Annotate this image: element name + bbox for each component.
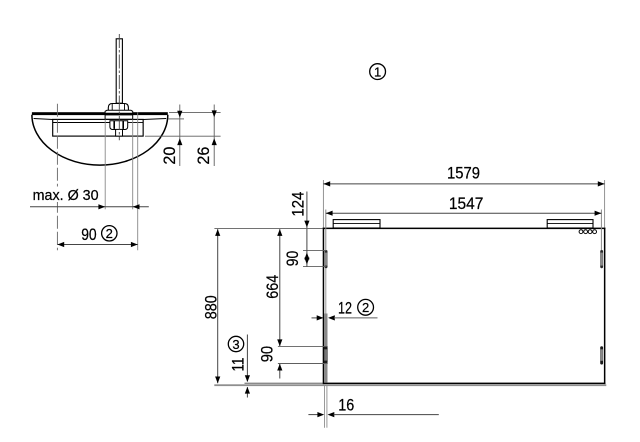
svg-text:1: 1 <box>374 64 381 79</box>
dimension 20 line and arrows <box>177 105 182 167</box>
svg-text:90: 90 <box>283 251 302 267</box>
dimension lower 90 bottom arrow <box>277 364 282 379</box>
dimension 664 line and arrows <box>277 229 282 346</box>
radiator: left edge <box>323 228 325 385</box>
svg-text:90: 90 <box>257 346 276 363</box>
svg-text:20: 20 <box>160 147 179 165</box>
dimension upper 90 line and arrows <box>304 231 309 267</box>
extension line washer right (max dia 30) <box>132 120 134 210</box>
svg-text:11: 11 <box>228 358 247 372</box>
lower 90 extension lines <box>278 346 328 363</box>
clamp bracket figure: lower nut <box>110 121 128 130</box>
extension line right (90 dim) <box>137 113 139 251</box>
left tap block <box>324 346 328 364</box>
dimension 880 line and arrows <box>215 229 220 383</box>
radiator: right edge <box>604 228 606 385</box>
top edge extension to left <box>214 227 322 229</box>
dimension 124 line with arrow <box>304 192 309 231</box>
svg-text:3: 3 <box>232 337 239 352</box>
label 124 <box>289 192 308 217</box>
svg-text:2: 2 <box>106 226 113 241</box>
clamp bracket figure: right inner lip line <box>143 119 166 120</box>
label 26 <box>194 147 213 165</box>
radiator: top edge <box>323 228 606 230</box>
label max dia 30 with mask <box>31 187 100 204</box>
callout circle 1 <box>370 64 386 80</box>
clamp bracket figure: left inner lip line <box>34 119 53 120</box>
svg-text:124: 124 <box>289 192 308 217</box>
dashed centerline extension left (90 dim) <box>56 104 58 251</box>
dimension 1579 extension lines <box>323 180 604 228</box>
label 1547 <box>449 194 484 213</box>
label 12 (2) <box>338 298 374 317</box>
svg-text:880: 880 <box>201 295 220 319</box>
dimension 11 line and arrows <box>245 335 250 398</box>
dimension line max dia 30 <box>30 204 149 209</box>
svg-text:max. Ø 30: max. Ø 30 <box>33 187 99 204</box>
label 90 (2) <box>81 225 117 244</box>
label 11 <box>228 358 247 372</box>
extension line C bracket bottom <box>145 135 221 137</box>
svg-text:90: 90 <box>81 225 97 244</box>
dimension 16 line and arrows <box>308 412 438 417</box>
svg-text:1579: 1579 <box>447 164 480 183</box>
svg-text:2: 2 <box>362 300 369 315</box>
floor line <box>214 384 606 386</box>
upper 90 extension lines <box>303 250 326 266</box>
svg-text:1547: 1547 <box>449 194 484 213</box>
radiator bottom extension line left <box>245 382 324 384</box>
radiator: bottom edge <box>323 383 606 385</box>
left console rail grey bar <box>324 314 327 383</box>
dimension 26 line and arrows <box>212 105 217 167</box>
clamp bracket figure: stud centerline <box>118 34 120 140</box>
clamp bracket figure: upper hex nut <box>108 104 128 111</box>
svg-text:12: 12 <box>338 298 352 317</box>
svg-text:664: 664 <box>263 275 282 299</box>
right tap capsule <box>600 346 603 364</box>
dimension line 90 (2) <box>57 242 137 247</box>
clamp bracket figure: lower washer under plate <box>105 115 133 119</box>
radiator: right top tab <box>547 220 593 228</box>
svg-text:16: 16 <box>338 395 354 414</box>
dimension line 1579 <box>323 181 604 186</box>
clamp bracket figure: stud rod <box>116 39 122 103</box>
label lower 90 <box>257 346 276 363</box>
dimension line 1547 <box>326 211 602 216</box>
right mounting thin line <box>600 210 602 251</box>
dimension 12 (2) line and arrows <box>312 315 378 320</box>
clamp bracket figure: bracket channel body <box>53 119 143 136</box>
clamp bracket figure: half-moon shell arc <box>32 115 168 165</box>
radiator: four vent holes <box>579 230 596 234</box>
label 1579 <box>447 164 480 183</box>
left mounting rail thin line <box>325 210 327 314</box>
extension line B bracket top <box>168 118 184 120</box>
right bracket capsule <box>600 250 603 268</box>
left bracket capsule <box>325 250 328 268</box>
label upper 90 <box>283 251 302 267</box>
label 664 <box>263 275 282 299</box>
label 880 <box>201 295 220 319</box>
callout circle 3 <box>228 336 243 352</box>
radiator: left top tab <box>333 220 380 228</box>
svg-text:26: 26 <box>194 147 213 165</box>
dimension 16 extension lines <box>325 386 327 428</box>
clamp bracket figure: upper washer <box>105 110 133 113</box>
clamp bracket figure: top plate <box>32 112 168 115</box>
extension line washer left (max dia 30) <box>104 120 106 210</box>
label 20 <box>160 147 179 165</box>
extension line A plate top <box>169 112 221 114</box>
label 16 <box>338 395 354 414</box>
clamp bracket figure: rod stub below nut <box>116 129 123 136</box>
